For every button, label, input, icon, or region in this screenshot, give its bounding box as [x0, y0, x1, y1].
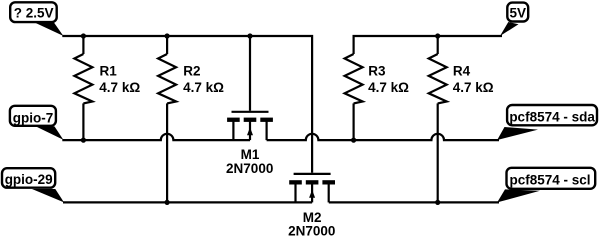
svg-text:gpio-29: gpio-29 [5, 172, 53, 187]
svg-text:4.7 kΩ: 4.7 kΩ [183, 80, 224, 95]
svg-text:4.7 kΩ: 4.7 kΩ [368, 80, 409, 95]
svg-text:gpio-7: gpio-7 [13, 110, 54, 125]
svg-text:R4: R4 [453, 64, 471, 79]
svg-text:2N7000: 2N7000 [226, 161, 273, 176]
svg-text:M1: M1 [241, 147, 260, 162]
svg-text:R3: R3 [368, 64, 386, 79]
svg-text:pcf8574 - sda: pcf8574 - sda [509, 110, 595, 125]
svg-text:4.7 kΩ: 4.7 kΩ [99, 80, 140, 95]
svg-text:2N7000: 2N7000 [288, 224, 335, 239]
svg-text:5V: 5V [510, 5, 527, 20]
svg-text:4.7 kΩ: 4.7 kΩ [453, 80, 494, 95]
svg-text:R1: R1 [100, 64, 118, 79]
svg-text:pcf8574 - scl: pcf8574 - scl [509, 173, 590, 188]
svg-text:R2: R2 [183, 64, 200, 79]
svg-text:? 2.5V: ? 2.5V [14, 6, 54, 21]
